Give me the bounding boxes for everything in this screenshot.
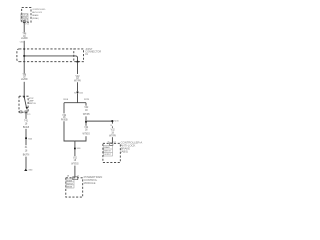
svg-text:S300: S300 xyxy=(28,138,32,140)
svg-text:G300: G300 xyxy=(28,170,32,172)
svg-text:WT/PK: WT/PK xyxy=(74,80,81,82)
svg-text:BRAKE: BRAKE xyxy=(32,14,39,17)
svg-text:BRAKE: BRAKE xyxy=(67,179,73,182)
svg-text:LG/RD: LG/RD xyxy=(21,79,28,81)
svg-text:LG/RD: LG/RD xyxy=(21,38,28,40)
svg-text:OUTPUT: OUTPUT xyxy=(104,154,111,156)
svg-text:OUTPUT: OUTPUT xyxy=(21,20,28,22)
svg-text:WT/DG: WT/DG xyxy=(71,163,79,165)
svg-text:SWITCH: SWITCH xyxy=(104,151,111,153)
svg-text:S126: S126 xyxy=(77,148,81,150)
svg-text:WT/DG: WT/DG xyxy=(83,133,91,135)
svg-text:BK/TN: BK/TN xyxy=(23,155,30,157)
svg-text:Z1: Z1 xyxy=(25,147,28,149)
svg-text:18: 18 xyxy=(25,151,28,153)
svg-text:18: 18 xyxy=(74,160,77,162)
svg-text:C100: C100 xyxy=(20,42,24,44)
svg-text:CONTROLLER-: CONTROLLER- xyxy=(32,9,46,11)
svg-text:18: 18 xyxy=(85,130,88,132)
svg-text:BRAKE: BRAKE xyxy=(104,146,110,149)
svg-text:18: 18 xyxy=(85,110,88,112)
svg-text:WT/PK: WT/PK xyxy=(83,114,90,116)
svg-text:V32: V32 xyxy=(73,157,78,159)
svg-text:BK/LB: BK/LB xyxy=(23,127,30,129)
svg-text:MODULE: MODULE xyxy=(84,181,96,185)
svg-text:3A: 3A xyxy=(67,174,70,177)
svg-text:C100: C100 xyxy=(79,92,83,94)
svg-text:2 C1: 2 C1 xyxy=(27,114,30,116)
svg-text:ANTI-LOCK: ANTI-LOCK xyxy=(32,11,43,14)
svg-text:2 C2: 2 C2 xyxy=(25,24,28,26)
svg-text:18: 18 xyxy=(25,123,28,125)
svg-text:SENSE: SENSE xyxy=(67,186,73,188)
svg-text:WT/PK: WT/PK xyxy=(84,99,90,101)
svg-text:SWITCH: SWITCH xyxy=(67,183,74,185)
svg-text:V32: V32 xyxy=(111,130,116,132)
svg-text:S2 41: S2 41 xyxy=(114,121,118,123)
svg-text:WT/PK: WT/PK xyxy=(109,135,116,137)
svg-text:PK/DB: PK/DB xyxy=(63,99,69,101)
svg-text:S2: S2 xyxy=(74,92,76,94)
svg-text:V32: V32 xyxy=(84,127,89,129)
svg-text:SWITCH: SWITCH xyxy=(29,103,37,105)
svg-text:PK/DB: PK/DB xyxy=(61,120,68,122)
svg-text:V32: V32 xyxy=(84,107,89,109)
svg-text:(RWAL): (RWAL) xyxy=(32,17,39,20)
svg-text:18: 18 xyxy=(111,132,114,134)
svg-text:(ABS): (ABS) xyxy=(121,149,128,153)
